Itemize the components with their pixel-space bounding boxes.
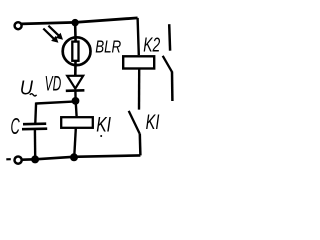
wire: left branch down to capacitor <box>34 102 37 123</box>
wire: bottom bus <box>22 155 140 159</box>
terminal T1 (top-left input) <box>15 22 22 29</box>
junction dot: K1-coil branch on bottom bus <box>70 153 78 161</box>
wire: top bus corner down to K2 coil <box>138 18 139 55</box>
svg-text:U: U <box>20 77 34 99</box>
svg-text:VD: VD <box>45 72 62 95</box>
wire: node A down to K1 coil <box>74 101 77 116</box>
terminal T2 stub <box>6 158 11 160</box>
wire: K1 contact lower terminal to bottom bus corner <box>139 134 142 156</box>
wire: top bus from T1 to K2-coil corner <box>22 18 138 24</box>
wire: top bus down to photoresistor body <box>74 22 77 42</box>
diode VD triangle <box>67 76 83 89</box>
K2 contact lower terminal <box>171 72 174 102</box>
wire: K1 coil down to bottom bus <box>74 129 76 158</box>
wire: K2 coil down to K1 contact (fixed terminal) <box>138 69 141 110</box>
light arrow 2 (lower) <box>43 29 58 43</box>
terminal T2 (bottom-left input) <box>15 157 22 164</box>
svg-text:KI: KI <box>96 112 111 136</box>
photoresistor BLR circle <box>63 37 91 65</box>
wire: diode to node A <box>74 91 77 102</box>
photoresistor body rect <box>72 42 78 61</box>
relay coil K2 <box>123 56 154 68</box>
svg-text:KI: KI <box>146 110 160 134</box>
capacitor C bottom plate <box>22 127 47 130</box>
light arrow 1 (upper) <box>48 26 63 40</box>
K1 contact blade <box>129 111 140 134</box>
relay coil K1 <box>61 117 93 128</box>
K2 contact upper terminal <box>168 24 171 51</box>
label U~ wave subscript <box>30 94 37 96</box>
junction dot: capacitor branch on bottom bus <box>31 155 39 163</box>
svg-text:C: C <box>11 113 20 139</box>
K2 contact blade <box>163 56 172 72</box>
svg-text:K2: K2 <box>143 34 160 57</box>
wire: capacitor down to bottom bus <box>34 130 37 157</box>
junction node A dot <box>72 97 80 105</box>
junction dot: photoresistor branch on top bus <box>71 19 78 26</box>
wire: node A left to capacitor branch <box>36 101 75 103</box>
capacitor C top plate <box>23 122 46 125</box>
svg-text:BLR: BLR <box>95 37 121 57</box>
wire: photoresistor to diode <box>74 61 77 76</box>
stray speck <box>100 135 102 137</box>
diode VD cathode bar <box>66 89 85 92</box>
